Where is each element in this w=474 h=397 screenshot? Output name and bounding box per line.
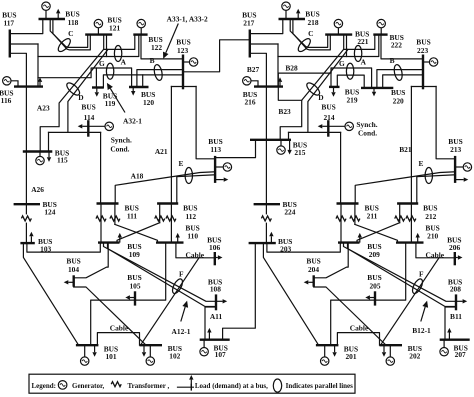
parallel lines marker E	[185, 168, 192, 184]
svg-text:120: 120	[143, 98, 154, 107]
transformer 109-112	[155, 216, 165, 221]
line 219-220 c2	[337, 75, 364, 88]
load arrow 116	[39, 82, 41, 87]
svg-text:223: 223	[417, 46, 428, 55]
wire 215 drop	[288, 132, 290, 139]
pointer arrow A32-1	[110, 88, 125, 112]
line 205-210	[375, 243, 406, 301]
bus 208	[455, 294, 457, 310]
parallel lines marker E	[425, 168, 432, 184]
bus 217	[249, 30, 251, 58]
svg-text:A21: A21	[155, 147, 168, 156]
pointer arrow A12-1	[181, 307, 185, 322]
cable 106-110	[176, 243, 215, 258]
bus 222	[373, 33, 387, 35]
bus 114	[87, 120, 89, 137]
transformer cross 111-110	[115, 224, 158, 242]
svg-text:121: 121	[109, 24, 120, 33]
svg-text:105: 105	[129, 282, 140, 291]
load arrow 106	[215, 257, 218, 259]
transformer 203-224	[261, 216, 271, 221]
line 111-114 drop	[100, 132, 102, 203]
generator 107	[203, 340, 205, 348]
transformer 110-112	[166, 216, 176, 221]
load arrow 120	[132, 87, 134, 91]
svg-text:124: 124	[44, 208, 55, 217]
generator 207	[443, 340, 445, 348]
line 223-213 riser	[436, 87, 455, 159]
wire 223 bottom	[411, 86, 436, 88]
bus 109	[98, 241, 120, 243]
svg-text:Cond.: Cond.	[110, 145, 129, 154]
line 212-213	[417, 175, 455, 204]
svg-text:A32-1: A32-1	[123, 116, 142, 125]
bus 201	[316, 344, 339, 346]
bus 121	[85, 33, 112, 35]
bus 115	[23, 150, 53, 152]
bus 107	[200, 339, 230, 341]
transformer 209-212	[395, 216, 405, 221]
svg-text:119: 119	[105, 99, 116, 108]
line 108-110 F2	[108, 243, 217, 306]
load arrow 101	[94, 345, 96, 352]
bus 203	[249, 242, 276, 244]
svg-text:208: 208	[450, 285, 461, 294]
bus 111	[97, 202, 119, 204]
line 119-120 c1	[96, 68, 131, 88]
transformer cross 112-109	[117, 223, 160, 243]
load arrow 110	[177, 238, 179, 243]
pointer arrow A33 to B	[166, 24, 179, 53]
generator 123	[183, 61, 189, 63]
line 114-115 horizontal	[49, 131, 101, 133]
synchronous condenser 214	[328, 125, 345, 127]
bus 124	[14, 203, 40, 205]
line 115-121 D1 staircase	[40, 50, 103, 152]
svg-text:104: 104	[68, 265, 79, 274]
transformer 209-211 column	[340, 204, 342, 243]
svg-text:A26: A26	[31, 185, 44, 194]
line 214-215 horizontal	[289, 131, 341, 133]
line 207-208	[445, 307, 456, 340]
line 122-123	[141, 35, 183, 59]
load arrow 213	[455, 179, 464, 181]
line 201-205	[331, 300, 375, 345]
svg-text:107: 107	[215, 350, 226, 359]
wire 221 tap	[346, 35, 348, 57]
line 221-222 dip	[344, 35, 375, 50]
pointer arrow B12-1	[421, 307, 425, 322]
svg-text:202: 202	[409, 352, 420, 361]
bus 219	[329, 86, 340, 88]
line 211-214 drop	[340, 132, 342, 203]
line 202-206	[381, 258, 440, 345]
load arrow 203	[270, 236, 272, 243]
svg-text:A33-1, A33-2: A33-1, A33-2	[167, 14, 208, 23]
wire 116 column	[37, 44, 39, 87]
svg-text:Cable: Cable	[350, 323, 369, 332]
generator 218	[285, 10, 287, 19]
svg-text:220: 220	[393, 97, 404, 106]
svg-text:Cable: Cable	[186, 250, 205, 259]
svg-text:109: 109	[129, 250, 140, 259]
line A21 column	[410, 87, 412, 243]
legend generator symbol	[58, 381, 67, 390]
line 217-218	[250, 20, 283, 34]
generator 121	[97, 28, 99, 35]
generator 201	[324, 345, 326, 357]
svg-text:224: 224	[284, 208, 295, 217]
line 117-118	[10, 20, 43, 34]
bus 218	[279, 18, 306, 20]
generator 122	[140, 28, 142, 35]
line 215-221 D1 staircase	[280, 50, 343, 140]
svg-text:102: 102	[169, 352, 180, 361]
line A21 column	[170, 87, 172, 243]
parallel lines marker G	[106, 63, 113, 79]
transformer 111 stub	[114, 204, 116, 225]
svg-text:213: 213	[450, 145, 461, 154]
line 215-216-224 column	[265, 87, 267, 205]
line A23 114-116	[38, 68, 96, 78]
load arrow 206	[455, 257, 458, 259]
svg-text:106: 106	[209, 243, 220, 252]
bus 216	[254, 85, 283, 87]
bus 105	[134, 291, 136, 305]
svg-text:117: 117	[3, 18, 14, 27]
bus 106	[214, 252, 216, 265]
bus 204	[313, 275, 315, 286]
generator 213	[455, 166, 463, 168]
legend transformer symbol	[111, 382, 121, 387]
svg-text:B21: B21	[399, 145, 412, 154]
legend box	[29, 374, 355, 393]
generator 102	[149, 345, 151, 357]
svg-text:Cable: Cable	[110, 323, 129, 332]
bus 123	[182, 55, 184, 90]
bus 116	[14, 85, 43, 87]
generator 202	[389, 345, 391, 357]
tie line 123-217	[183, 40, 249, 72]
load arrow 102	[143, 345, 145, 352]
bus 108	[215, 294, 217, 310]
generator 223	[423, 61, 429, 63]
transformer link 124-103	[25, 204, 27, 214]
svg-text:209: 209	[369, 250, 380, 259]
line 216-217	[250, 53, 267, 86]
line 222-223	[381, 35, 423, 59]
svg-text:201: 201	[345, 352, 356, 361]
line 118-121 c2	[53, 19, 90, 50]
bus 118	[39, 18, 66, 20]
line 218-221 c2	[293, 19, 330, 50]
bus 122	[133, 33, 147, 35]
svg-text:A: A	[121, 57, 127, 66]
line 102-104	[74, 287, 146, 345]
svg-text:116: 116	[1, 96, 12, 105]
svg-text:F: F	[179, 269, 184, 278]
line 115-116-124 column	[25, 87, 27, 205]
svg-text:115: 115	[57, 155, 68, 164]
line 208-209 F1	[344, 243, 457, 301]
svg-text:214: 214	[323, 113, 334, 122]
svg-text:BUS: BUS	[321, 102, 335, 111]
svg-text:Legend:: Legend:	[32, 382, 57, 390]
svg-text:217: 217	[243, 18, 254, 27]
line 105-110	[135, 243, 166, 301]
line 117-122 stub	[10, 43, 38, 45]
bus 117	[9, 30, 11, 58]
transformer link 224-203	[265, 204, 267, 214]
svg-text:Synch.: Synch.	[111, 135, 132, 144]
wire 123 bottom	[171, 86, 196, 88]
line 123-113 riser	[196, 87, 215, 159]
tie line 107-203	[223, 243, 256, 340]
svg-text:C: C	[68, 29, 73, 38]
wire 120 drop	[142, 75, 144, 87]
bus 120	[129, 86, 149, 88]
svg-text:B28: B28	[285, 64, 298, 73]
svg-text:216: 216	[244, 98, 255, 107]
line 104-109	[74, 243, 109, 278]
line 217-222	[278, 35, 379, 57]
svg-text:112: 112	[185, 212, 196, 221]
svg-text:B27: B27	[247, 65, 260, 74]
transformer 209-211	[336, 216, 346, 221]
svg-text:221: 221	[357, 37, 368, 46]
line 111-113	[115, 172, 215, 204]
svg-text:118: 118	[68, 18, 79, 27]
line 102-106	[141, 258, 200, 345]
transformer cross 212-209	[357, 223, 400, 243]
line 208-210 F2	[348, 243, 457, 306]
bus 206	[454, 252, 456, 265]
parallel lines marker G	[346, 63, 353, 79]
bus 112	[157, 202, 178, 204]
generator 216	[251, 81, 258, 87]
parallel lines marker A	[114, 46, 121, 62]
svg-text:114: 114	[84, 113, 95, 122]
parallel lines marker C	[56, 37, 72, 54]
svg-text:123: 123	[177, 46, 188, 55]
svg-text:Cond.: Cond.	[358, 129, 377, 138]
line 219-220 c1	[331, 68, 372, 88]
wire 216 column	[277, 44, 279, 87]
svg-text:Load (demand) at a bus,: Load (demand) at a bus,	[195, 382, 268, 390]
svg-text:A18: A18	[131, 171, 144, 180]
load arrow 103	[30, 236, 32, 243]
load arrow 118	[57, 13, 59, 19]
svg-text:A12-1: A12-1	[172, 327, 191, 336]
svg-text:204: 204	[308, 265, 319, 274]
transformer 109-111	[96, 216, 106, 221]
svg-text:206: 206	[449, 243, 460, 252]
line 220-223 c2	[383, 75, 423, 88]
svg-text:108: 108	[210, 285, 221, 294]
wire 121 tap	[106, 35, 108, 57]
svg-text:B: B	[390, 56, 395, 65]
line 112-113	[177, 175, 215, 204]
load arrow 119	[96, 88, 98, 93]
cable 206-210	[416, 243, 455, 258]
load arrow 216	[279, 82, 281, 87]
transformer 210-211	[350, 216, 360, 221]
bus 214	[327, 120, 329, 137]
load arrow 107	[208, 333, 210, 340]
load arrow 205	[370, 297, 375, 299]
line 116-117	[10, 53, 27, 86]
bus 102	[140, 344, 163, 346]
svg-text:103: 103	[40, 245, 51, 254]
parallel lines marker B	[153, 64, 164, 81]
svg-text:Cable: Cable	[426, 250, 445, 259]
load arrow 109	[119, 238, 121, 243]
parallel lines marker D	[65, 81, 82, 97]
generator 118	[45, 10, 47, 19]
transformer link 124-103 lower	[25, 223, 27, 243]
svg-text:B11: B11	[450, 312, 462, 321]
cable 101-102	[97, 333, 139, 346]
parallel lines marker F	[410, 277, 424, 295]
load arrow 210	[417, 238, 419, 243]
wire 115 drop	[48, 132, 50, 151]
svg-text:122: 122	[151, 43, 162, 52]
line 203-209	[267, 243, 340, 253]
line 101-103	[23, 243, 78, 345]
generator 113	[215, 166, 223, 168]
svg-text:207: 207	[455, 350, 466, 359]
load arrow 219	[333, 87, 335, 92]
line 117-122	[38, 35, 139, 57]
svg-text:212: 212	[425, 212, 436, 221]
load arrow 105	[130, 297, 135, 299]
svg-text:110: 110	[187, 232, 198, 241]
svg-text:Transformer ,: Transformer ,	[128, 382, 170, 390]
bus 205	[374, 291, 376, 305]
svg-text:Generator,: Generator,	[72, 382, 104, 390]
bus 101	[76, 344, 99, 346]
legend parallel lines symbol	[273, 379, 281, 392]
svg-text:111: 111	[127, 212, 138, 221]
transformer 103-124	[21, 216, 31, 221]
legend load symbol bus tick	[190, 384, 192, 391]
generator 222	[380, 28, 382, 35]
tie line 113-215	[215, 140, 255, 158]
transformer 211 stub	[354, 204, 356, 225]
bus 202	[380, 344, 403, 346]
line 220-223 c1	[377, 70, 423, 88]
line 119-120 c2	[103, 75, 183, 88]
line 120-123 c1	[137, 70, 183, 87]
load arrow 215	[289, 140, 291, 150]
parallel lines marker C	[296, 37, 312, 54]
line 217-222 stub	[250, 43, 278, 45]
load arrow 220	[373, 88, 375, 92]
bus 209	[338, 241, 360, 243]
line 202-204	[314, 287, 386, 345]
svg-text:C: C	[308, 29, 313, 38]
transformer 212 stub	[399, 204, 401, 223]
line 107-108	[205, 307, 216, 340]
line 115-121 D2 diagonal	[68, 50, 108, 133]
svg-text:113: 113	[210, 145, 221, 154]
line 118-121 c1	[50, 19, 87, 47]
svg-text:211: 211	[367, 212, 378, 221]
load arrow 114	[82, 125, 88, 127]
svg-text:A23: A23	[37, 103, 50, 112]
load arrow 202	[383, 345, 385, 352]
svg-text:215: 215	[294, 148, 305, 157]
svg-text:218: 218	[307, 18, 318, 27]
parallel lines marker D	[305, 81, 322, 97]
transformer 210-212	[406, 216, 416, 221]
line 215-221 D2 diagonal	[308, 50, 348, 133]
load arrow 207	[448, 333, 450, 340]
svg-text:210: 210	[427, 232, 438, 241]
bus 104	[72, 275, 74, 286]
generator 221	[337, 28, 339, 35]
synchronous condenser 114	[88, 125, 105, 127]
svg-text:Indicates parallel lines: Indicates parallel lines	[286, 382, 354, 390]
line 101-105	[91, 300, 135, 345]
bus 224	[254, 203, 280, 205]
load arrow 104	[68, 281, 73, 283]
svg-text:B: B	[150, 56, 155, 65]
bus 221	[325, 33, 352, 35]
load arrow 201	[334, 345, 336, 352]
cable 201-202	[337, 333, 379, 346]
load arrow 208	[456, 300, 463, 302]
load arrow 115	[48, 152, 50, 158]
generator 101	[84, 345, 86, 357]
bus 210	[396, 241, 424, 243]
bus 212	[397, 202, 418, 204]
svg-text:219: 219	[346, 96, 357, 105]
bus 220	[361, 87, 393, 89]
svg-text:D: D	[78, 93, 83, 102]
bus 119	[92, 86, 104, 88]
parallel lines marker B	[393, 64, 404, 81]
svg-text:205: 205	[369, 282, 380, 291]
load arrow 108	[216, 300, 223, 302]
svg-text:222: 222	[391, 40, 402, 49]
svg-text:A11: A11	[210, 312, 223, 321]
transformer 112 stub	[159, 204, 161, 223]
line 211-213	[355, 172, 455, 204]
bus 211	[337, 202, 359, 204]
svg-text:A: A	[361, 57, 367, 66]
line 103-109	[27, 243, 100, 253]
parallel lines marker A	[354, 46, 361, 62]
transformer cross 211-210	[355, 224, 398, 242]
generator 115	[39, 152, 41, 157]
transformer 109-111 column	[100, 204, 102, 243]
svg-text:B12-1: B12-1	[412, 326, 431, 335]
legend load symbol line	[177, 386, 194, 388]
bus 215	[250, 139, 291, 141]
line 121-122 dip	[104, 35, 135, 50]
load arrow 113	[215, 179, 224, 181]
load arrow 214	[322, 125, 328, 127]
line B23 214-216 box	[278, 68, 331, 100]
svg-text:E: E	[179, 159, 184, 168]
bus 113	[214, 156, 216, 183]
line 108-109 F1	[104, 243, 217, 301]
load arrow 209	[359, 238, 361, 243]
line 218-221 c1	[290, 19, 328, 47]
load arrow 218	[297, 13, 299, 19]
svg-text:101: 101	[105, 352, 116, 361]
